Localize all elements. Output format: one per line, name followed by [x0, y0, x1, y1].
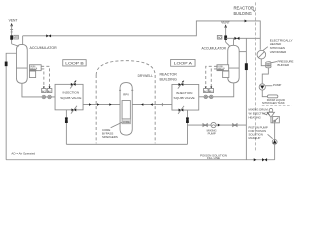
wire top pipe [23, 21, 261, 50]
valve circle 2 left [48, 95, 51, 98]
squib valve top right box [179, 83, 184, 86]
wire injection line right to RPV [132, 104, 172, 106]
RPV seam ticks [119, 89, 133, 91]
accumulator left tank [16, 44, 27, 83]
squib valve bottom left box [71, 108, 76, 111]
wire right tank outlet [199, 83, 234, 97]
core box [122, 119, 130, 124]
level line in right tank [228, 67, 239, 69]
svg-text:NITROGEN TANK: NITROGEN TANK [262, 101, 285, 105]
RPV vessel [120, 83, 132, 136]
secondary box below right instrument box [223, 71, 229, 78]
wire buffer to pump [262, 68, 268, 84]
svg-text:BUFFER: BUFFER [278, 63, 290, 67]
leader reactor building [252, 9, 255, 11]
svg-text:DRYWELL: DRYWELL [138, 74, 153, 78]
AO actuator box 2 right [209, 89, 214, 93]
svg-text:LOOP A: LOOP A [174, 62, 193, 66]
wire long right vertical [245, 38, 247, 159]
wire injection line left to RPV [83, 104, 120, 106]
thick valve right drop [186, 117, 189, 123]
level line in left tank [16, 67, 27, 69]
loop b box [63, 60, 86, 66]
svg-text:ACCUMULATOR: ACCUMULATOR [29, 46, 57, 50]
small valve on pump line [233, 124, 237, 127]
wire pump to LN2 tank [262, 90, 267, 97]
instrument box on left tank [29, 65, 41, 71]
svg-text:INJECTION: INJECTION [176, 91, 193, 95]
drywell dashed dome [96, 61, 155, 75]
arrow on top pipe right [245, 20, 248, 23]
valve circle 1 left [42, 95, 45, 98]
wire poison solution fill line [6, 159, 275, 161]
svg-text:VENT: VENT [221, 21, 230, 25]
box AO right vent [217, 35, 222, 39]
wire left header from tank wall [6, 53, 16, 160]
svg-text:AO = Air Operated: AO = Air Operated [11, 152, 35, 156]
wire vaporizer to buffer [261, 59, 265, 66]
wire stub dome to top pipe [22, 36, 24, 45]
arrow on fill line [254, 158, 257, 161]
accumulator right tank [228, 45, 239, 83]
valve on branch (filled bowtie horizontal) [234, 37, 239, 40]
pressure buffer coil [266, 62, 271, 64]
svg-text:LOOP B: LOOP B [65, 62, 84, 66]
wire vent line left [11, 25, 13, 44]
wire vent line right [225, 26, 227, 42]
wire N2 branch line [226, 37, 261, 39]
valve on fill line [262, 158, 267, 161]
wire piston pump down [274, 123, 276, 140]
piston pump box [273, 116, 280, 122]
loop a box [171, 59, 195, 66]
AO actuator box 1 right [204, 89, 209, 93]
secondary box below instrument box [29, 71, 35, 78]
svg-text:AO: AO [210, 90, 213, 93]
valve on long right vertical [245, 63, 248, 70]
svg-text:VENT: VENT [9, 18, 18, 22]
check valve circle [272, 139, 277, 144]
wire left tank outlet [22, 83, 55, 97]
svg-text:AO: AO [218, 36, 222, 39]
svg-text:AO: AO [14, 36, 18, 39]
wire drop from right box [186, 110, 188, 144]
mixing drum motor [269, 108, 273, 112]
valve circle 2 right [210, 95, 213, 98]
svg-text:BUILDING: BUILDING [159, 78, 177, 82]
valve on top pipe (filled bowtie horizontal) [46, 34, 51, 37]
stub branch to dome [233, 38, 235, 45]
svg-text:AO: AO [48, 90, 51, 93]
leader vaporizer [263, 47, 268, 51]
box AO left vent [14, 35, 19, 39]
squib valve bottom right box [179, 109, 184, 112]
drywell left wall dashed [95, 75, 97, 143]
LN2 tank capsule [267, 95, 277, 98]
injection squib valve box left [55, 84, 83, 110]
svg-text:AO: AO [42, 90, 45, 93]
wire bottom cross line [66, 143, 187, 145]
svg-text:VAPORIZER: VAPORIZER [270, 50, 287, 54]
wire drum to piston pump [271, 117, 273, 123]
wire check valve to fill line [274, 144, 276, 160]
drywell right wall dashed [154, 75, 156, 143]
vaporizer circle [257, 50, 266, 59]
instrument box on right tank [217, 65, 229, 71]
svg-text:MAKEUP: MAKEUP [249, 136, 261, 140]
thick valve left drop [65, 117, 68, 123]
svg-text:CORE: CORE [123, 121, 130, 124]
pump circle [259, 84, 265, 90]
svg-text:PUMP: PUMP [273, 83, 281, 87]
AO actuator box 2 left [47, 89, 52, 93]
svg-text:FILL LINE: FILL LINE [207, 156, 220, 160]
wire mixing pump line [187, 124, 246, 126]
leader core bypass [111, 122, 122, 128]
core shroud [122, 101, 130, 119]
wire diagonal vent to right dome [226, 42, 230, 46]
svg-text:SQUIB VALVE: SQUIB VALVE [174, 96, 195, 100]
svg-text:PUMP: PUMP [208, 132, 216, 136]
svg-text:INJECTION: INJECTION [63, 91, 80, 95]
boundary dash-dot right [254, 2, 256, 151]
tick on vent line [10, 30, 13, 32]
wire diagonal vent to accumulator dome [12, 44, 19, 46]
svg-text:SQUIB VALVE: SQUIB VALVE [60, 96, 81, 100]
svg-text:ACCUMULATOR: ACCUMULATOR [201, 47, 226, 51]
squib valve top left box [71, 83, 76, 86]
valve AO vent right [224, 35, 227, 39]
valve circle 1 right [204, 95, 207, 98]
injection squib valve box right [172, 84, 199, 110]
wire right tank connector to header [239, 51, 246, 53]
svg-text:RPV: RPV [123, 92, 129, 96]
vent arrow left [10, 23, 13, 26]
dashed signal lines right [206, 66, 217, 87]
svg-text:REACTOR: REACTOR [159, 73, 177, 77]
valve on left header (filled bowtie vertical) [5, 62, 8, 67]
svg-text:BUILDING: BUILDING [233, 11, 251, 16]
dashed signal lines left [41, 66, 49, 87]
svg-text:AO: AO [204, 90, 207, 93]
valve AO vent left (filled bowtie vertical) [10, 35, 13, 39]
svg-text:SPARGERS: SPARGERS [102, 135, 118, 139]
mixing pump circle [211, 122, 216, 127]
svg-text:HEATING: HEATING [249, 116, 261, 120]
vent arrow right [224, 24, 227, 27]
wire drop from left box [65, 110, 67, 145]
mixing drum funnel [267, 112, 274, 117]
AO actuator box 1 left [42, 89, 47, 93]
